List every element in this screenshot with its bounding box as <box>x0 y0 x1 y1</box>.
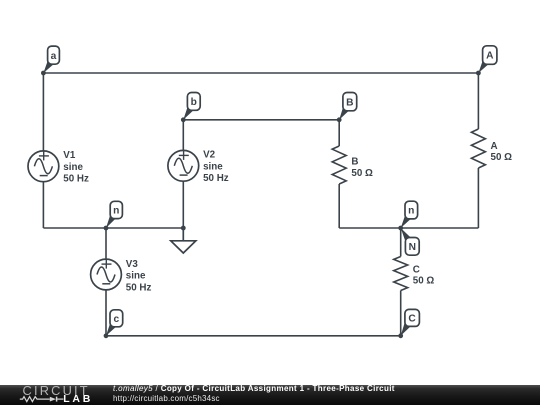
junction dot ground <box>181 226 186 231</box>
resistor C zigzag <box>394 257 408 291</box>
svg-text:50 Ω: 50 Ω <box>491 152 513 163</box>
svg-text:B: B <box>346 97 353 108</box>
junction dot n (left) <box>104 226 109 231</box>
label V1 value text <box>63 150 89 184</box>
node label c <box>106 310 123 336</box>
node label N <box>401 228 419 255</box>
junction dot B <box>337 117 342 122</box>
voltage source V2 symbol <box>168 150 199 181</box>
svg-text:50 Hz: 50 Hz <box>63 174 89 185</box>
node label B <box>339 93 356 120</box>
node label n (right) <box>401 201 418 228</box>
junction dot c <box>104 333 109 338</box>
label V2 value text <box>203 150 229 184</box>
wire V1 bottom vertical <box>42 182 44 228</box>
node label n (left) <box>106 201 122 228</box>
wire b junction to V2 top <box>182 120 184 151</box>
wire a to V1 top <box>42 73 44 151</box>
svg-text:A: A <box>491 141 498 152</box>
voltage source V1 symbol <box>28 151 59 182</box>
wire net a: top horizontal from node a to node A <box>43 72 478 74</box>
wire net n: bottom-left horizontal to ground junction <box>43 227 183 229</box>
svg-text:50 Ω: 50 Ω <box>413 276 435 287</box>
wire n junction to V3 top <box>105 228 107 259</box>
wire V2 bottom to ground junction <box>182 181 184 228</box>
svg-text:n: n <box>408 206 414 217</box>
resistor A zigzag <box>471 129 485 168</box>
node label C <box>401 309 420 335</box>
svg-text:B: B <box>351 157 358 168</box>
label C value text <box>413 264 435 286</box>
wire V3 bottom to node c <box>105 290 107 336</box>
junction dot b <box>181 117 186 122</box>
svg-text:V2: V2 <box>203 150 216 161</box>
svg-text:C: C <box>413 264 420 275</box>
svg-text:a: a <box>51 51 57 62</box>
svg-text:50 Hz: 50 Hz <box>126 282 152 293</box>
junction dot C <box>398 333 403 338</box>
label A value text <box>491 141 513 163</box>
wire net b: horizontal from node b to node B <box>183 119 339 121</box>
svg-text:c: c <box>113 314 119 325</box>
wire resistor A bottom lead <box>477 168 479 228</box>
wire net N: right mid horizontal joining R_B, node N, R_A <box>339 227 478 229</box>
wire net c: bottom horizontal from node c to node C <box>106 335 401 337</box>
footer line 1: author / title <box>113 384 395 394</box>
footer bar <box>0 385 540 405</box>
junction dot A <box>476 71 481 76</box>
wire resistor C bottom lead <box>400 291 402 336</box>
svg-text:sine: sine <box>63 162 83 173</box>
ground symbol <box>171 228 196 253</box>
node label a <box>43 46 59 73</box>
svg-text:sine: sine <box>203 161 223 172</box>
label V3 value text <box>126 259 152 293</box>
CircuitLab logo symbol (resistor + diode) and LAB <box>0 385 106 405</box>
svg-text:sine: sine <box>126 271 146 282</box>
label B value text <box>351 157 373 179</box>
wire resistor C top lead <box>400 228 402 257</box>
svg-text:V1: V1 <box>63 150 76 161</box>
svg-text:C: C <box>408 314 416 325</box>
wire resistor A top lead <box>477 73 479 129</box>
voltage source V3 symbol <box>91 259 122 290</box>
svg-text:A: A <box>486 51 494 62</box>
svg-text:V3: V3 <box>126 259 139 270</box>
junction dot a <box>41 71 46 76</box>
footer line 2: url <box>113 394 220 404</box>
svg-text:50 Hz: 50 Hz <box>203 173 229 184</box>
node label A <box>478 46 497 73</box>
junction dot nN (right) <box>398 226 403 231</box>
CircuitLab logo wordmark CIRCUIT <box>23 385 90 396</box>
wire resistor B top lead <box>338 120 340 146</box>
node label b <box>183 93 200 120</box>
svg-text:50 Ω: 50 Ω <box>351 168 373 179</box>
wire resistor B bottom lead <box>338 184 340 228</box>
svg-text:n: n <box>113 206 119 217</box>
svg-text:b: b <box>191 97 197 108</box>
svg-text:N: N <box>409 242 416 253</box>
resistor B zigzag <box>332 146 346 184</box>
